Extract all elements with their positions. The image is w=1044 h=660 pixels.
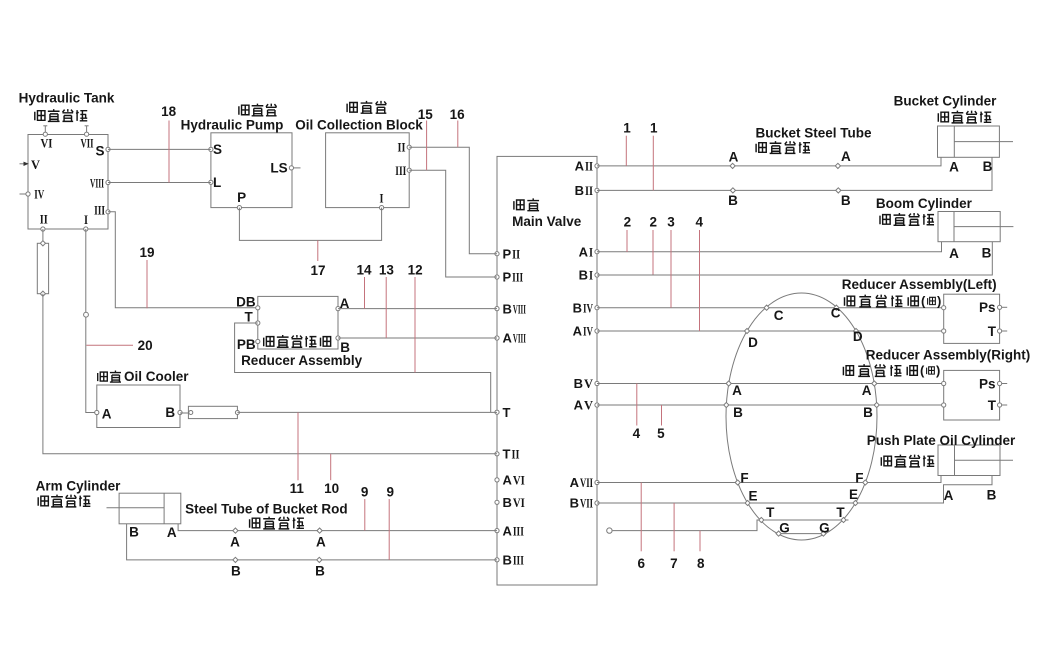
- svg-text:): ): [937, 294, 941, 309]
- wire reducer B to valve AVIII: [338, 337, 497, 339]
- main valve port BV: [595, 381, 599, 385]
- svg-text:9: 9: [361, 484, 369, 499]
- cooler port B: [178, 410, 182, 414]
- svg-text:14: 14: [356, 263, 372, 278]
- svg-text:T: T: [244, 310, 253, 325]
- boom cylinder rod: [954, 226, 1013, 228]
- svg-text:AIV: AIV: [573, 324, 594, 339]
- arm tube A diamond 1: [233, 528, 238, 533]
- label CJK bucket steel tube cn: [756, 143, 767, 153]
- wire tank III to reducer DB: [108, 212, 258, 308]
- svg-text:8: 8: [697, 556, 705, 571]
- swivel A diamond 1: [726, 381, 731, 386]
- red leader ref 11: [297, 412, 299, 480]
- wire arm B to valve BIII: [127, 524, 497, 560]
- svg-text:B: B: [165, 405, 175, 420]
- arm tube B diamond 2: [317, 557, 322, 562]
- svg-text:11: 11: [290, 481, 305, 496]
- svg-text:III: III: [395, 163, 406, 178]
- svg-text:VI: VI: [41, 136, 53, 151]
- svg-text:T: T: [836, 505, 845, 520]
- svg-text:BIII: BIII: [503, 553, 524, 568]
- svg-text:BVI: BVI: [503, 495, 525, 510]
- red leader ref 14: [364, 277, 366, 309]
- svg-text:C: C: [774, 308, 784, 323]
- reducer-right box: [944, 370, 1000, 420]
- red leader ref 2b: [652, 230, 654, 275]
- reducer-left T stub: [1002, 330, 1008, 332]
- svg-text:DB: DB: [236, 295, 256, 310]
- bucket tube A diamond 2: [835, 163, 840, 168]
- svg-text:B: B: [982, 246, 992, 261]
- svg-text:BII: BII: [575, 183, 593, 198]
- svg-text:1: 1: [623, 121, 631, 136]
- svg-text:VII: VII: [81, 136, 94, 151]
- reducer port T: [256, 321, 260, 325]
- svg-text:Oil Cooler: Oil Cooler: [124, 369, 189, 384]
- svg-text:BI: BI: [579, 268, 593, 283]
- bucket tube B diamond 2: [836, 188, 841, 193]
- connector left circle: [189, 411, 193, 415]
- reducer-right upper-left port: [942, 381, 946, 385]
- red leader ref 10: [330, 454, 332, 480]
- wire valve AII to bucket A: [597, 157, 941, 166]
- red leader ref 9a: [364, 499, 366, 531]
- inline connector box: [188, 406, 237, 418]
- pump port P: [237, 206, 241, 210]
- main valve port AVII: [595, 480, 599, 484]
- svg-text:15: 15: [418, 107, 434, 122]
- svg-text:II: II: [398, 140, 406, 155]
- svg-text:Ps: Ps: [979, 300, 996, 315]
- label CJK hydraulic pump: [238, 105, 249, 115]
- tank port IV stub: [20, 192, 31, 196]
- svg-text:PIII: PIII: [503, 270, 524, 285]
- swivel F diamond 1: [735, 480, 740, 485]
- svg-text:II: II: [40, 212, 48, 227]
- svg-text:B: B: [728, 193, 738, 208]
- svg-text:Reducer Assembly(Left): Reducer Assembly(Left): [842, 277, 997, 292]
- svg-text:B: B: [129, 524, 139, 539]
- push cylinder rod: [955, 459, 1014, 461]
- tank port V stub with arrow: [20, 162, 29, 166]
- label CJK reducer assembly: [263, 337, 274, 347]
- svg-text:LS: LS: [270, 161, 287, 176]
- label CJK arm cylinder cn: [38, 496, 49, 506]
- reducer-right T port: [998, 403, 1002, 407]
- svg-text:6: 6: [638, 556, 646, 571]
- reducer-left lower-left port: [942, 329, 946, 333]
- svg-text:B: B: [983, 159, 993, 174]
- svg-text:(: (: [920, 363, 925, 378]
- main valve port TII: [495, 452, 499, 456]
- svg-text:AVII: AVII: [570, 475, 593, 490]
- wire tank VIII to pump L: [108, 182, 211, 184]
- svg-text:D: D: [748, 335, 758, 350]
- wire filter to valve TII: [43, 294, 497, 454]
- svg-text:A: A: [316, 534, 326, 549]
- svg-text:B: B: [841, 193, 851, 208]
- swivel T diamond 1: [759, 517, 764, 522]
- svg-text:T: T: [766, 505, 775, 520]
- svg-text:TII: TII: [503, 447, 520, 462]
- wire OCB III to valve PIII: [409, 170, 497, 277]
- bucket cylinder box: [938, 126, 1000, 157]
- bucket cylinder rod: [954, 141, 1013, 143]
- svg-text:B: B: [987, 488, 997, 503]
- OCB port II: [407, 145, 411, 149]
- svg-text:A: A: [949, 160, 959, 175]
- cooler port A: [95, 410, 99, 414]
- svg-text:12: 12: [408, 263, 423, 278]
- reducer-left upper-left port: [942, 306, 946, 310]
- swivel G diamond 1: [776, 531, 781, 536]
- tank port III: [106, 210, 110, 214]
- svg-text:A: A: [949, 246, 959, 261]
- oil collection block box: [326, 133, 410, 208]
- svg-text:T: T: [988, 398, 997, 413]
- red leader ref 8: [699, 531, 701, 552]
- main valve port PII: [495, 252, 499, 256]
- main valve port AVI: [495, 478, 499, 482]
- red leader ref 5: [661, 405, 663, 426]
- svg-text:18: 18: [161, 104, 177, 119]
- filter top diamond: [40, 241, 45, 246]
- svg-text:T: T: [988, 324, 997, 339]
- filter box: [37, 243, 48, 293]
- pump LS stub: [294, 167, 301, 169]
- red leader ref 16: [457, 121, 459, 148]
- bucket tube B diamond 1: [730, 188, 735, 193]
- svg-text:19: 19: [139, 245, 154, 260]
- svg-text:P: P: [237, 190, 246, 205]
- svg-text:BIV: BIV: [573, 300, 594, 315]
- swivel E diamond 2: [853, 500, 858, 505]
- main valve port BI: [595, 273, 599, 277]
- wire valve AI to boom A: [597, 242, 942, 252]
- tank breather port VII: [85, 126, 89, 136]
- main valve port BII: [595, 188, 599, 192]
- wire pump P to OCB I: [239, 208, 381, 241]
- OCB port I: [380, 206, 384, 210]
- svg-text:T: T: [503, 405, 511, 420]
- arm cylinder piston: [163, 493, 165, 524]
- svg-text:3: 3: [667, 215, 675, 230]
- svg-text:A: A: [862, 383, 872, 398]
- label CJK hydraulic tank: [34, 111, 45, 121]
- svg-text:Reducer Assembly(Right): Reducer Assembly(Right): [866, 348, 1031, 363]
- tank port I: [84, 227, 88, 231]
- swivel A diamond 2: [872, 381, 877, 386]
- red leader ref 19: [146, 260, 148, 308]
- reducer-right Ps port: [998, 381, 1002, 385]
- main valve port AIII: [495, 529, 499, 533]
- red leader ref 17: [317, 240, 319, 261]
- red leader ref 1b: [652, 136, 654, 191]
- pump port L: [209, 180, 213, 184]
- svg-text:F: F: [855, 470, 863, 485]
- label CJK boom cylinder cn: [879, 215, 890, 225]
- svg-text:Arm Cylinder: Arm Cylinder: [36, 479, 122, 494]
- svg-text:2: 2: [624, 215, 632, 230]
- red leader ref 15: [426, 121, 428, 171]
- reducer port B: [336, 336, 340, 340]
- wire valve BVII to push B: [597, 476, 992, 504]
- svg-text:Reducer Assembly: Reducer Assembly: [241, 353, 363, 368]
- svg-text:A: A: [729, 150, 739, 165]
- swivel G diamond 2: [821, 531, 826, 536]
- swivel D diamond 2: [853, 328, 858, 333]
- hydraulic tank box: [28, 135, 108, 230]
- svg-text:Bucket Steel Tube: Bucket Steel Tube: [755, 126, 872, 141]
- svg-text:Main Valve: Main Valve: [512, 214, 582, 229]
- wire cooler B to connector: [180, 412, 188, 414]
- swivel G line: [777, 533, 826, 535]
- red leader ref 7: [673, 503, 675, 551]
- reducer-right Ps stub: [1002, 383, 1008, 385]
- svg-text:7: 7: [670, 556, 678, 571]
- svg-text:B: B: [231, 564, 241, 579]
- svg-text:L: L: [213, 175, 221, 190]
- svg-text:AV: AV: [574, 398, 594, 413]
- wire OCB II to valve PII: [409, 147, 497, 254]
- arm cylinder box: [119, 493, 181, 524]
- main valve port PIII: [495, 275, 499, 279]
- main valve port AI: [595, 250, 599, 254]
- svg-text:IV: IV: [34, 187, 44, 202]
- reducer assembly box: [258, 296, 338, 349]
- label CJK push plate cn: [881, 456, 892, 466]
- label CJK reducer left cn: [844, 296, 855, 306]
- wire arm A to valve AIII: [178, 524, 497, 531]
- red leader ref 1a: [625, 136, 627, 166]
- svg-text:Ps: Ps: [979, 376, 996, 391]
- svg-text:4: 4: [695, 215, 703, 230]
- svg-text:B: B: [315, 564, 325, 579]
- svg-text:BVII: BVII: [570, 496, 593, 511]
- svg-text:BV: BV: [574, 376, 594, 391]
- svg-text:13: 13: [379, 263, 395, 278]
- svg-text:D: D: [853, 329, 863, 344]
- boom cylinder piston: [953, 212, 955, 242]
- label CJK oil cooler cn: [97, 372, 107, 381]
- label CJK reducer right cn: [843, 366, 854, 376]
- svg-text:Steel Tube of Bucket Rod: Steel Tube of Bucket Rod: [185, 502, 348, 517]
- main valve port AV: [595, 403, 599, 407]
- svg-text:G: G: [819, 520, 830, 535]
- svg-text:BVIII: BVIII: [503, 301, 526, 316]
- svg-text:): ): [936, 363, 940, 378]
- connector right circle: [235, 411, 239, 415]
- arm tube B diamond 1: [233, 557, 238, 562]
- svg-text:B: B: [733, 405, 743, 420]
- arm cylinder rod: [107, 507, 165, 509]
- main valve port BVII: [595, 501, 599, 505]
- svg-text:9: 9: [387, 484, 395, 499]
- wire valve AV to reducer-right lower: [597, 404, 944, 406]
- svg-text:A: A: [102, 407, 112, 422]
- OCB port III: [407, 168, 411, 172]
- red leader ref 4a: [699, 230, 701, 331]
- wire tank I to cooler A: [86, 229, 97, 413]
- tank port VIII: [106, 180, 110, 184]
- red leader ref 4b: [636, 384, 638, 426]
- svg-text:I: I: [84, 212, 88, 227]
- wire connector to valve T: [237, 411, 497, 413]
- svg-text:E: E: [748, 488, 757, 503]
- boom cylinder box: [938, 212, 1000, 242]
- reducer-left Ps port: [998, 305, 1002, 309]
- bucket tube A diamond 1: [730, 163, 735, 168]
- red leader ref 20: [86, 344, 133, 346]
- svg-text:G: G: [779, 520, 790, 535]
- wire valve AIV to reducer-left lower: [597, 330, 944, 332]
- svg-text:VIII: VIII: [90, 176, 104, 191]
- svg-text:PB: PB: [237, 337, 256, 352]
- svg-text:C: C: [831, 306, 841, 321]
- reducer port DB: [256, 306, 260, 310]
- reducer port A: [336, 307, 340, 311]
- reducer-left Ps stub: [1002, 306, 1008, 308]
- wire valve BI to boom B: [597, 242, 992, 275]
- svg-text:V: V: [31, 157, 41, 172]
- wire valve BIV to reducer-left upper: [597, 307, 944, 309]
- tank port II: [41, 227, 45, 231]
- svg-text:F: F: [740, 471, 748, 486]
- wire valve BV to reducer-right upper: [597, 383, 944, 385]
- main valve port AIV: [595, 329, 599, 333]
- svg-text:E: E: [849, 487, 858, 502]
- svg-text:AIII: AIII: [503, 523, 524, 538]
- label CJK main valve: [513, 200, 524, 210]
- svg-text:B: B: [863, 405, 873, 420]
- red leader ref 18: [168, 121, 170, 183]
- svg-text:17: 17: [310, 263, 325, 278]
- svg-text:20: 20: [138, 338, 153, 353]
- wire valve AVII to push A: [597, 476, 941, 483]
- junction circle on tank I leg: [84, 312, 89, 317]
- red leader ref 6: [640, 483, 642, 552]
- swivel C diamond 2: [834, 305, 839, 310]
- center swivel ellipse: [726, 293, 877, 540]
- svg-text:1: 1: [650, 121, 658, 136]
- main valve port T: [495, 410, 499, 414]
- red leader ref 12: [414, 277, 416, 373]
- svg-text:Oil Collection Block: Oil Collection Block: [295, 118, 423, 133]
- svg-text:A: A: [167, 525, 177, 540]
- filter bottom diamond: [40, 291, 45, 296]
- reducer-left T port: [998, 329, 1002, 333]
- swivel B diamond 1: [724, 402, 729, 407]
- swivel T diamond 2: [841, 517, 846, 522]
- svg-text:AVIII: AVIII: [503, 331, 526, 346]
- main valve port AII: [595, 164, 599, 168]
- swivel B diamond 2: [874, 402, 879, 407]
- swivel F diamond 2: [863, 480, 868, 485]
- svg-text:(: (: [921, 294, 926, 309]
- pump port S: [209, 147, 213, 151]
- svg-text:A: A: [944, 488, 954, 503]
- svg-text:2: 2: [649, 215, 657, 230]
- svg-text:4: 4: [633, 426, 641, 441]
- svg-text:III: III: [94, 202, 105, 217]
- wire reducer T return: [235, 323, 491, 412]
- reducer-right T stub: [1002, 404, 1008, 406]
- wire valve BII to bucket B: [597, 157, 992, 190]
- reducer-right lower-left port: [942, 403, 946, 407]
- swivel D diamond 1: [744, 328, 749, 333]
- wire tank S to pump S: [108, 148, 211, 150]
- label CJK oil collection block: [347, 103, 358, 113]
- red leader ref 3: [670, 230, 672, 308]
- bucket cylinder piston: [953, 126, 955, 157]
- drain port circle: [607, 528, 612, 533]
- svg-text:A: A: [732, 383, 742, 398]
- svg-text:AI: AI: [579, 244, 593, 259]
- reducer port PB: [256, 339, 260, 343]
- red leader ref 9b: [388, 499, 390, 560]
- svg-text:10: 10: [324, 481, 339, 496]
- arm tube A diamond 2: [317, 528, 322, 533]
- wire reducer A to valve BVIII: [338, 308, 497, 310]
- main valve port BIV: [595, 306, 599, 310]
- svg-text:A: A: [230, 535, 240, 550]
- svg-text:Boom Cylinder: Boom Cylinder: [876, 196, 973, 211]
- oil cooler box: [97, 385, 180, 428]
- svg-text:S: S: [96, 144, 105, 159]
- red leader ref 2a: [626, 230, 628, 252]
- main valve port BIII: [495, 558, 499, 562]
- push cylinder piston: [954, 445, 956, 476]
- svg-text:16: 16: [450, 107, 466, 122]
- reducer-left box: [944, 294, 1000, 343]
- main valve port AVIII: [495, 336, 499, 340]
- red leader ref 13: [385, 277, 387, 338]
- svg-text:PII: PII: [503, 246, 521, 261]
- svg-text:5: 5: [657, 426, 665, 441]
- swivel C diamond 1: [764, 305, 769, 310]
- push cylinder box: [938, 445, 1000, 476]
- label CJK bucket cylinder cn: [938, 112, 949, 122]
- pump port LS: [289, 166, 293, 170]
- tank breather port VI: [43, 126, 47, 136]
- wire drain to swivel T: [613, 520, 849, 531]
- svg-text:Hydraulic Tank: Hydraulic Tank: [19, 91, 115, 106]
- svg-text:S: S: [213, 142, 222, 157]
- svg-text:A: A: [841, 149, 851, 164]
- svg-text:Push Plate Oil Cylinder: Push Plate Oil Cylinder: [867, 433, 1016, 448]
- main valve port BVI: [495, 500, 499, 504]
- tank port S: [106, 147, 110, 151]
- hydraulic pump box: [211, 133, 292, 208]
- swivel E diamond 1: [745, 500, 750, 505]
- svg-text:AII: AII: [575, 159, 593, 174]
- svg-text:Hydraulic Pump: Hydraulic Pump: [181, 118, 284, 133]
- main valve port BVIII: [495, 307, 499, 311]
- svg-text:I: I: [380, 191, 384, 206]
- svg-text:AVI: AVI: [503, 473, 525, 488]
- main valve box: [497, 156, 597, 585]
- label CJK bucket rod tube cn: [249, 518, 260, 528]
- wire tank II down: [42, 229, 44, 243]
- svg-text:Bucket Cylinder: Bucket Cylinder: [894, 94, 998, 109]
